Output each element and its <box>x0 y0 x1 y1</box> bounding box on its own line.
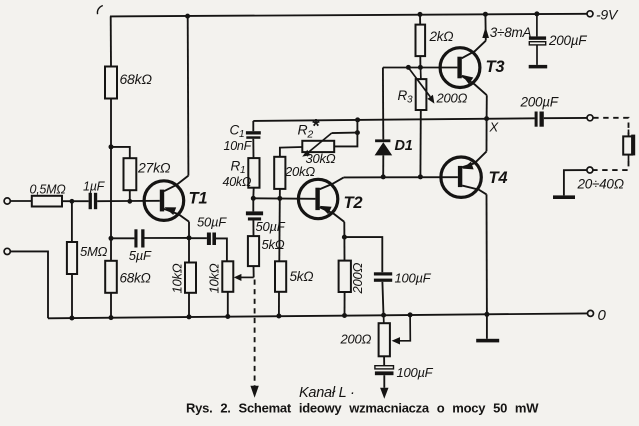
svg-text:3÷8mA: 3÷8mA <box>490 25 532 40</box>
svg-text:5kΩ: 5kΩ <box>290 269 314 284</box>
wire 68k lower to rail <box>110 293 112 318</box>
potentiometer R2 30k <box>302 133 334 157</box>
node rail 200R <box>342 313 347 318</box>
node 27k/base <box>127 199 132 204</box>
resistor 200R emitter <box>339 261 351 292</box>
svg-text:5µF: 5µF <box>129 248 152 263</box>
arrow output channel <box>380 388 388 399</box>
capacitor C1 <box>246 131 261 139</box>
ground T4 <box>476 339 499 343</box>
resistor 2k <box>416 25 426 56</box>
wire 5M column <box>71 201 73 242</box>
svg-text:200µF: 200µF <box>520 95 559 110</box>
wire R2 right end to X line <box>334 120 357 146</box>
svg-text:0: 0 <box>598 307 607 324</box>
resistor 68k lower <box>105 261 117 293</box>
wire T4 emitter to X <box>486 119 488 152</box>
wire 20k to base node <box>279 189 281 199</box>
wire 27k to base <box>129 190 131 201</box>
svg-text:T1: T1 <box>189 190 208 208</box>
wiper arrow of 10k2 <box>234 274 254 281</box>
dashed line Kanal L <box>254 280 256 386</box>
node T2 emitter <box>342 235 347 240</box>
wire 5k1 to wiper <box>253 266 255 277</box>
node R3/T4 base <box>418 174 423 179</box>
wire dashed to speaker <box>593 118 628 135</box>
capacitor 200uF supply <box>529 14 548 69</box>
wire T1 base <box>97 200 160 202</box>
svg-text:Rys. 2. Schemat ideowy wzmacni: Rys. 2. Schemat ideowy wzmacniacza o moc… <box>186 400 539 415</box>
wire base node down to 5k 2 <box>278 198 281 261</box>
node rail 5M <box>69 316 74 321</box>
resistor 5k 1 <box>248 236 259 266</box>
wire return to ground <box>564 170 587 195</box>
arrow 3-8mA (open) <box>482 27 489 38</box>
node bias/27k <box>109 144 114 149</box>
wire input2 down to rail <box>10 251 48 318</box>
node top rail / T3 collector <box>483 12 488 17</box>
node R2 wiper/right end <box>355 130 360 135</box>
resistor 20k <box>274 157 285 189</box>
svg-text:27kΩ: 27kΩ <box>137 160 171 176</box>
terminal output hot <box>587 115 593 121</box>
transistor T3 <box>440 41 487 95</box>
wire T3 emitter to X <box>486 95 488 118</box>
wire 5M to rail <box>71 274 73 318</box>
wire R3 to T4 base line <box>419 110 421 177</box>
terminal output return <box>587 167 593 173</box>
wire 50uF to 5k1 <box>252 221 254 237</box>
diode D1 <box>375 68 393 177</box>
resistor R1 <box>248 158 259 188</box>
wire top supply rail <box>110 14 587 17</box>
resistor 5k 2 <box>275 261 286 292</box>
wire emitter node to 200R <box>343 237 345 261</box>
node X/R2 <box>355 117 360 122</box>
wire C1 top corner <box>252 121 254 131</box>
wire X line left <box>253 118 534 121</box>
node rail T4 emitter <box>484 312 489 317</box>
wire T4 collector to rail <box>486 194 488 314</box>
node T1 emitter <box>187 235 192 240</box>
capacitor 50uF horizontal <box>207 233 216 246</box>
svg-text:T3: T3 <box>486 58 505 76</box>
svg-text:10kΩ: 10kΩ <box>207 263 222 293</box>
scan scratch mark <box>97 6 102 15</box>
wire ground stub T4 <box>486 314 488 339</box>
wire bottom ground rail <box>48 313 587 318</box>
wire 68k bottom to bias column <box>110 99 112 261</box>
wire 50uF to 10k2 <box>216 238 227 261</box>
node rail pot wiper <box>408 312 413 317</box>
svg-text:10nF: 10nF <box>224 139 253 153</box>
capacitor 200uF output <box>535 112 544 127</box>
wire 100uF2 to arrow <box>383 375 385 388</box>
svg-text:10kΩ: 10kΩ <box>170 263 185 293</box>
wire pot to 100uF 2 <box>383 356 385 365</box>
wire T4 base line <box>344 176 458 178</box>
transistor T2 <box>298 177 344 222</box>
wire 27k branch <box>111 147 130 158</box>
svg-text:D1: D1 <box>395 138 413 154</box>
svg-text:1µF: 1µF <box>83 180 106 194</box>
svg-text:50µF: 50µF <box>256 219 286 234</box>
svg-text:68kΩ: 68kΩ <box>120 71 153 87</box>
wire T2 emitter down <box>343 222 345 237</box>
wire 68k column top <box>110 16 112 66</box>
svg-text:5kΩ: 5kΩ <box>262 237 285 252</box>
svg-text:X: X <box>489 120 500 135</box>
wire C1 to R1 <box>252 139 254 158</box>
wire output cap to terminal <box>544 117 587 119</box>
svg-text:100µF: 100µF <box>397 365 434 380</box>
svg-text:0,5MΩ: 0,5MΩ <box>30 183 67 197</box>
resistor 27k <box>124 158 137 190</box>
node rail 10k2 <box>225 314 230 319</box>
capacitor 50uF vertical <box>246 211 263 220</box>
transistor T4 <box>441 151 487 197</box>
svg-text:200Ω: 200Ω <box>436 91 468 106</box>
ground speaker <box>553 195 575 199</box>
wire 10k2 to rail <box>227 292 229 317</box>
wire T2 base line <box>253 197 315 200</box>
capacitor 5uF branch wire left <box>111 237 134 239</box>
resistor 10k 1 <box>185 263 196 293</box>
wire T3 base line <box>383 67 458 69</box>
wire base node to 50uF vertical <box>252 198 254 211</box>
node D1/T4 base <box>381 174 386 179</box>
svg-text:T2: T2 <box>344 194 363 212</box>
wire T3 collector with current arrow <box>484 14 486 41</box>
transistor T1 <box>144 176 189 222</box>
capacitor 5uF <box>134 229 144 247</box>
svg-text:200µF: 200µF <box>548 33 587 48</box>
capacitor 100uF 1 <box>374 272 392 282</box>
capacitor 100uF 2 <box>375 366 394 375</box>
resistor 68k upper <box>105 67 117 99</box>
node input bias <box>70 199 75 204</box>
wire 5uF to emitter node <box>145 237 190 239</box>
wire emitter node to 50uF <box>189 237 207 239</box>
resistor 5M <box>67 242 77 274</box>
svg-text:T4: T4 <box>489 169 508 187</box>
node X <box>484 116 489 121</box>
wire 10k1 to rail <box>188 293 190 317</box>
node 2k/R3 <box>418 65 423 70</box>
terminal -9V <box>587 11 593 17</box>
wire input1 to R <box>10 200 32 202</box>
svg-text:20÷40Ω: 20÷40Ω <box>577 177 624 192</box>
speaker load 20-40R <box>623 130 635 162</box>
node rail 10k1 <box>187 314 192 319</box>
node top rail / 2k branch <box>418 12 423 17</box>
wire T1 emitter down <box>188 222 190 238</box>
wire 2k top <box>419 14 421 24</box>
svg-text:30kΩ: 30kΩ <box>306 151 336 166</box>
svg-text:5MΩ: 5MΩ <box>80 244 108 259</box>
wire R1 to base node <box>252 188 254 199</box>
wire 100uF to rail <box>382 282 383 315</box>
svg-text:2kΩ: 2kΩ <box>429 29 454 44</box>
wire R2 wiper horizontal <box>332 132 358 135</box>
resistor 0,5M <box>32 196 62 207</box>
node bias/5uF <box>109 236 114 241</box>
wire emitter node to 10k1 <box>188 238 190 263</box>
wire 5k2 to rail <box>278 292 280 316</box>
node rail 5k2 <box>276 314 281 319</box>
node R1/base <box>251 196 256 201</box>
svg-text:Kanał L ·: Kanał L · <box>299 385 355 401</box>
wire 2k to node <box>419 56 421 67</box>
terminal 0 <box>588 310 594 316</box>
svg-text:200Ω: 200Ω <box>350 263 365 295</box>
resistor 10k 2 potentiometer <box>222 261 233 292</box>
svg-text:68kΩ: 68kΩ <box>120 271 151 286</box>
wire 20k top to R2 <box>280 147 302 157</box>
node top rail / 200uF branch <box>534 11 539 16</box>
potentiometer R3 <box>408 67 434 110</box>
node rail 100uF/pot <box>381 313 386 318</box>
wire T1 collector to rail <box>187 16 190 175</box>
svg-text:40kΩ: 40kΩ <box>223 175 252 189</box>
node top rail / 68k branch <box>185 14 190 19</box>
wire 0,5M to cap 1uF <box>62 200 89 202</box>
potentiometer 200R feedback <box>379 315 411 356</box>
arrow Kanal L <box>250 386 258 398</box>
terminal input 2 <box>4 248 10 254</box>
svg-text:50µF: 50µF <box>197 215 227 230</box>
svg-text:20kΩ: 20kΩ <box>284 164 315 179</box>
wire dashed speaker return <box>593 161 629 170</box>
terminal input 1 <box>4 198 10 204</box>
svg-text:200Ω: 200Ω <box>340 332 372 347</box>
wire 200R to rail <box>344 292 346 316</box>
wire emitter node to 100uF <box>344 237 382 272</box>
node rail 68k <box>109 315 114 320</box>
svg-text:100µF: 100µF <box>395 271 432 286</box>
node 20k/base <box>277 196 282 201</box>
capacitor 1uF <box>89 193 98 209</box>
node R3 wiper/base <box>406 65 411 70</box>
svg-text:-9V: -9V <box>596 7 619 23</box>
